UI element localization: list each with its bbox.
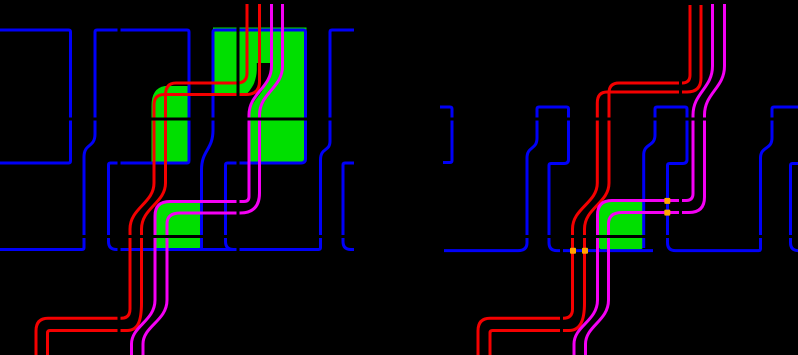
magenta net wire B (right panel): [586, 4, 725, 355]
congested region D (right panel green highlight): [598, 201, 644, 251]
blue routed net: right panel comb2 (leg 655/643.7, bar, leg 687 jog 666.5, rail, leg 760.5/772 jog, comb3 bar): [644, 107, 798, 251]
blue routed net: right panel comb3 right leg (jog from edge, leg 790.5, rail stub): [791, 164, 798, 251]
congested region B (left panel, mid-left green highlight): [152, 86, 189, 162]
gcell grid line vertical x=680.5 (right panel ticks): [679, 78, 682, 218]
gcell grid line horizontal y=118.5: [0, 118, 798, 121]
blue routed net: region-A cell border (top rail seg3, leg 213/201.5 jog): [202, 30, 306, 250]
magenta net wire A (right panel): [574, 4, 713, 355]
red net wire B (right panel): [490, 5, 690, 355]
gcell grid line vertical x=238 (over region A and rails): [237, 25, 240, 256]
magenta net wire B (left panel): [143, 4, 283, 355]
congested region C (left panel, lower green highlight): [155, 201, 201, 251]
via dot at magenta wire B crossing blue leg (right panel): [664, 210, 670, 216]
magenta net wire A (left panel): [132, 4, 272, 355]
red net wire A (left panel, inner line): [36, 4, 260, 355]
congested region A (left panel, top-center green highlight): [213, 28, 307, 163]
blue routed net: right panel comb1 (bar y107, legs 537/527 and 568.5 jog 549, rail y250.6): [444, 107, 653, 251]
blue routed net: serpentine (rail y249.5 left seg, leg 84/95 jog, top rail seg2, leg 187.5, mid rail seg2, leg 108.5, rail y249.5 main, leg 320.5/330 jog, top rail seg4): [0, 30, 354, 250]
red net wire A (right panel): [478, 5, 701, 355]
via dot at magenta wire A crossing blue leg (right panel): [664, 198, 670, 204]
via dot at red wire B crossing rail (right panel): [582, 248, 588, 254]
gcell grid line vertical x=561.5 (right panel ticks): [560, 245, 563, 336]
red net wire B (left panel, outer line): [48, 4, 248, 355]
gcell grid line vertical x=119 (tick marks over rails and wires): [118, 25, 121, 336]
blue routed net: right panel bracket (comb0 right leg): [440, 107, 452, 163]
gcell grid line horizontal y=237: [0, 235, 798, 238]
blue routed net: right stub of left panel (mid rail seg4, leg 343, rail y249.5 stub): [343, 163, 354, 250]
via dot at red wire A crossing rail (right panel): [570, 248, 576, 254]
black notch between red and magenta buses inside region A: [246, 63, 271, 121]
blue routed net: C-cell at left (top rail y30 segment 1, leg x70.5, mid rail y162 to edge): [0, 30, 71, 163]
